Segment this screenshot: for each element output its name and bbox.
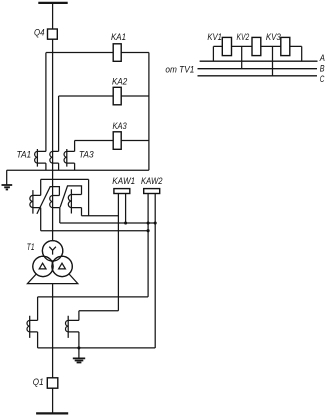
wire diff right drop: [88, 179, 90, 215]
svg-text:от TV1: от TV1: [165, 65, 194, 75]
relay KA3: [113, 132, 121, 150]
winding W2: [53, 196, 60, 208]
wire h1: [82, 215, 119, 217]
svg-text:Q1: Q1: [33, 377, 44, 387]
svg-text:KAW2: KAW2: [141, 176, 163, 186]
CT TA3: [67, 149, 75, 167]
relay KAW1 bar: [114, 189, 130, 194]
wire TA1 bottom lead: [45, 163, 47, 170]
transformer T1 circles: [33, 241, 72, 277]
wire TA3 bottom lead: [74, 163, 76, 170]
svg-text:KAW1: KAW1: [112, 176, 135, 186]
wire TA1 top lead: [45, 53, 47, 152]
wire diff bottom rail h3: [41, 230, 148, 232]
arrow diagonal NTT1: [37, 187, 60, 214]
wire ground drop: [6, 170, 8, 185]
breaker Q1: [47, 378, 58, 388]
svg-text:Q4: Q4: [34, 28, 45, 38]
wire drop A left: [212, 46, 214, 61]
winding W1: [33, 190, 41, 214]
relay KA1: [113, 44, 121, 62]
ground 2: [73, 358, 85, 362]
wye symbol: [49, 247, 56, 255]
wire bottom return: [38, 347, 156, 349]
KV rail: [213, 45, 301, 47]
CT TA2: [53, 151, 59, 163]
delta symbol left: [39, 263, 46, 269]
svg-text:B: B: [320, 64, 325, 74]
phase line A: [200, 60, 318, 62]
relay KV2: [252, 37, 261, 55]
wire W3 to h1: [81, 208, 83, 216]
phase line B: [198, 68, 318, 70]
relay KA2: [113, 87, 121, 105]
winding W3: [71, 189, 81, 213]
wire TA2 bottom lead: [58, 163, 60, 170]
wire drop A right: [301, 46, 303, 61]
bottom bus: [36, 412, 68, 414]
svg-text:KV1: KV1: [207, 32, 222, 42]
wire main line bottom: [52, 284, 54, 378]
relay KV3: [281, 37, 290, 55]
svg-text:KV2: KV2: [237, 32, 250, 42]
wire relay return vertical: [148, 53, 150, 171]
delta symbol right: [59, 263, 66, 269]
svg-text:A: A: [319, 53, 325, 63]
transformer T1 triangle: [28, 256, 78, 284]
wire h2: [60, 222, 155, 224]
wire diff left bar: [40, 179, 42, 230]
wire W2 to h2: [59, 208, 61, 223]
wire return horizontal: [7, 169, 149, 171]
arrow diagonal NTT2: [60, 186, 81, 207]
phase line C: [198, 75, 318, 77]
wire drop B: [241, 46, 243, 68]
svg-text:TA1: TA1: [17, 149, 32, 159]
wire CT5 leads: [78, 311, 80, 358]
wire KA1 row: [46, 52, 149, 54]
svg-text:KV3: KV3: [266, 32, 282, 42]
svg-text:KA2: KA2: [112, 77, 127, 87]
relay KAW2 bar: [144, 189, 160, 194]
junction dots: [77, 221, 156, 349]
ground: [2, 185, 13, 190]
relay KAW2 leads: [148, 194, 155, 349]
wire main line Q4 to T1: [52, 39, 54, 241]
svg-text:KA3: KA3: [113, 121, 128, 131]
top bus: [38, 2, 67, 4]
wire KA2 row: [59, 95, 149, 97]
wire KA3 row: [75, 140, 149, 142]
wire CT4 left leads: [37, 297, 39, 348]
CT5 winding: [68, 316, 79, 338]
CT TA1: [37, 149, 46, 167]
wire KAW2L to CT4 loop: [38, 296, 149, 298]
wire TA2 top lead: [58, 96, 60, 151]
wire main line top: [52, 3, 54, 29]
svg-text:TA3: TA3: [79, 149, 95, 159]
breaker Q4: [48, 29, 58, 39]
wire TA3 top lead: [74, 141, 76, 152]
wire drop C: [272, 46, 274, 75]
relay KAW1 leads: [118, 194, 125, 311]
svg-text:T1: T1: [27, 242, 35, 252]
wire KAW1L to CT5 loop: [79, 310, 119, 312]
CT4 winding: [30, 316, 38, 338]
svg-text:C: C: [320, 74, 325, 84]
svg-text:KA1: KA1: [111, 32, 126, 42]
relay KV1: [222, 37, 231, 55]
wire diff top rail: [41, 178, 89, 180]
